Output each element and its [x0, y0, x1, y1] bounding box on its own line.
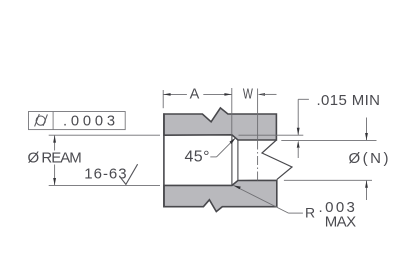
break line zigzag (right bore break)	[262, 140, 292, 180]
centerline W (dash-dot)	[257, 141, 259, 182]
extension line ream bottom (left)	[49, 184, 160, 186]
svg-text:A: A	[190, 87, 200, 103]
leader 45° diagonal	[217, 138, 236, 157]
svg-text:16-63: 16-63	[84, 166, 126, 183]
leader .015 vertical	[297, 99, 299, 135]
feature control frame	[29, 112, 126, 130]
arrow A left	[163, 93, 170, 96]
arrow .015 down	[297, 128, 300, 135]
svg-text:MAX: MAX	[325, 213, 356, 230]
cylindricity symbol	[35, 114, 48, 126]
svg-text:W: W	[243, 87, 253, 103]
arrow Ø(N) down	[365, 133, 368, 140]
surface finish symbol	[121, 164, 138, 184]
dimension line Ø(N) lower segment	[366, 181, 368, 200]
arrow 45°	[229, 138, 235, 144]
arrow .015 up	[297, 140, 300, 147]
arrow Ø REAM up	[53, 135, 56, 142]
leader 45° horizontal	[210, 156, 216, 158]
chamfer end circle edge	[237, 140, 239, 181]
svg-text:R: R	[305, 205, 315, 221]
extension line ream top (left)	[49, 134, 160, 136]
dimension line Ø REAM upper segment	[54, 136, 56, 151]
section body: upper wall	[164, 108, 276, 140]
dimension line Ø(N) upper segment	[366, 118, 368, 141]
svg-text:.015 MIN: .015 MIN	[317, 92, 381, 109]
arrow R.003	[233, 185, 240, 189]
arrow Ø REAM down	[53, 178, 56, 185]
svg-text:Ø REAM: Ø REAM	[28, 149, 82, 166]
dimension line A right segment	[203, 93, 232, 95]
arrow W right (outside)	[258, 93, 265, 96]
section body: lower wall	[164, 180, 277, 211]
bore end circle edge (ream end)	[231, 135, 233, 186]
extension line N bottom (right)	[284, 179, 372, 181]
dimension line A left segment	[163, 93, 187, 95]
dimension tail .015 below	[297, 147, 299, 158]
dimension tail W right	[262, 93, 277, 95]
leader .015 horizontal	[298, 98, 309, 100]
extension line .015 upper (ream top extended right)	[239, 134, 304, 136]
svg-text:45°: 45°	[185, 148, 210, 165]
leader R.003 horizontal	[289, 212, 303, 214]
arrow Ø(N) up	[365, 180, 368, 187]
left end face edge	[163, 113, 165, 207]
extension line A right / chamfer start	[231, 88, 233, 135]
extension line W right (solid above bore)	[257, 89, 259, 141]
arrow A right / W left	[224, 93, 231, 96]
leader R.003 diagonal	[233, 185, 288, 213]
svg-text:.0003: .0003	[63, 114, 115, 130]
dimension line Ø REAM lower segment	[54, 165, 56, 186]
extension line .015 lower / N top (long)	[281, 139, 376, 141]
extension line A left	[162, 90, 164, 108]
